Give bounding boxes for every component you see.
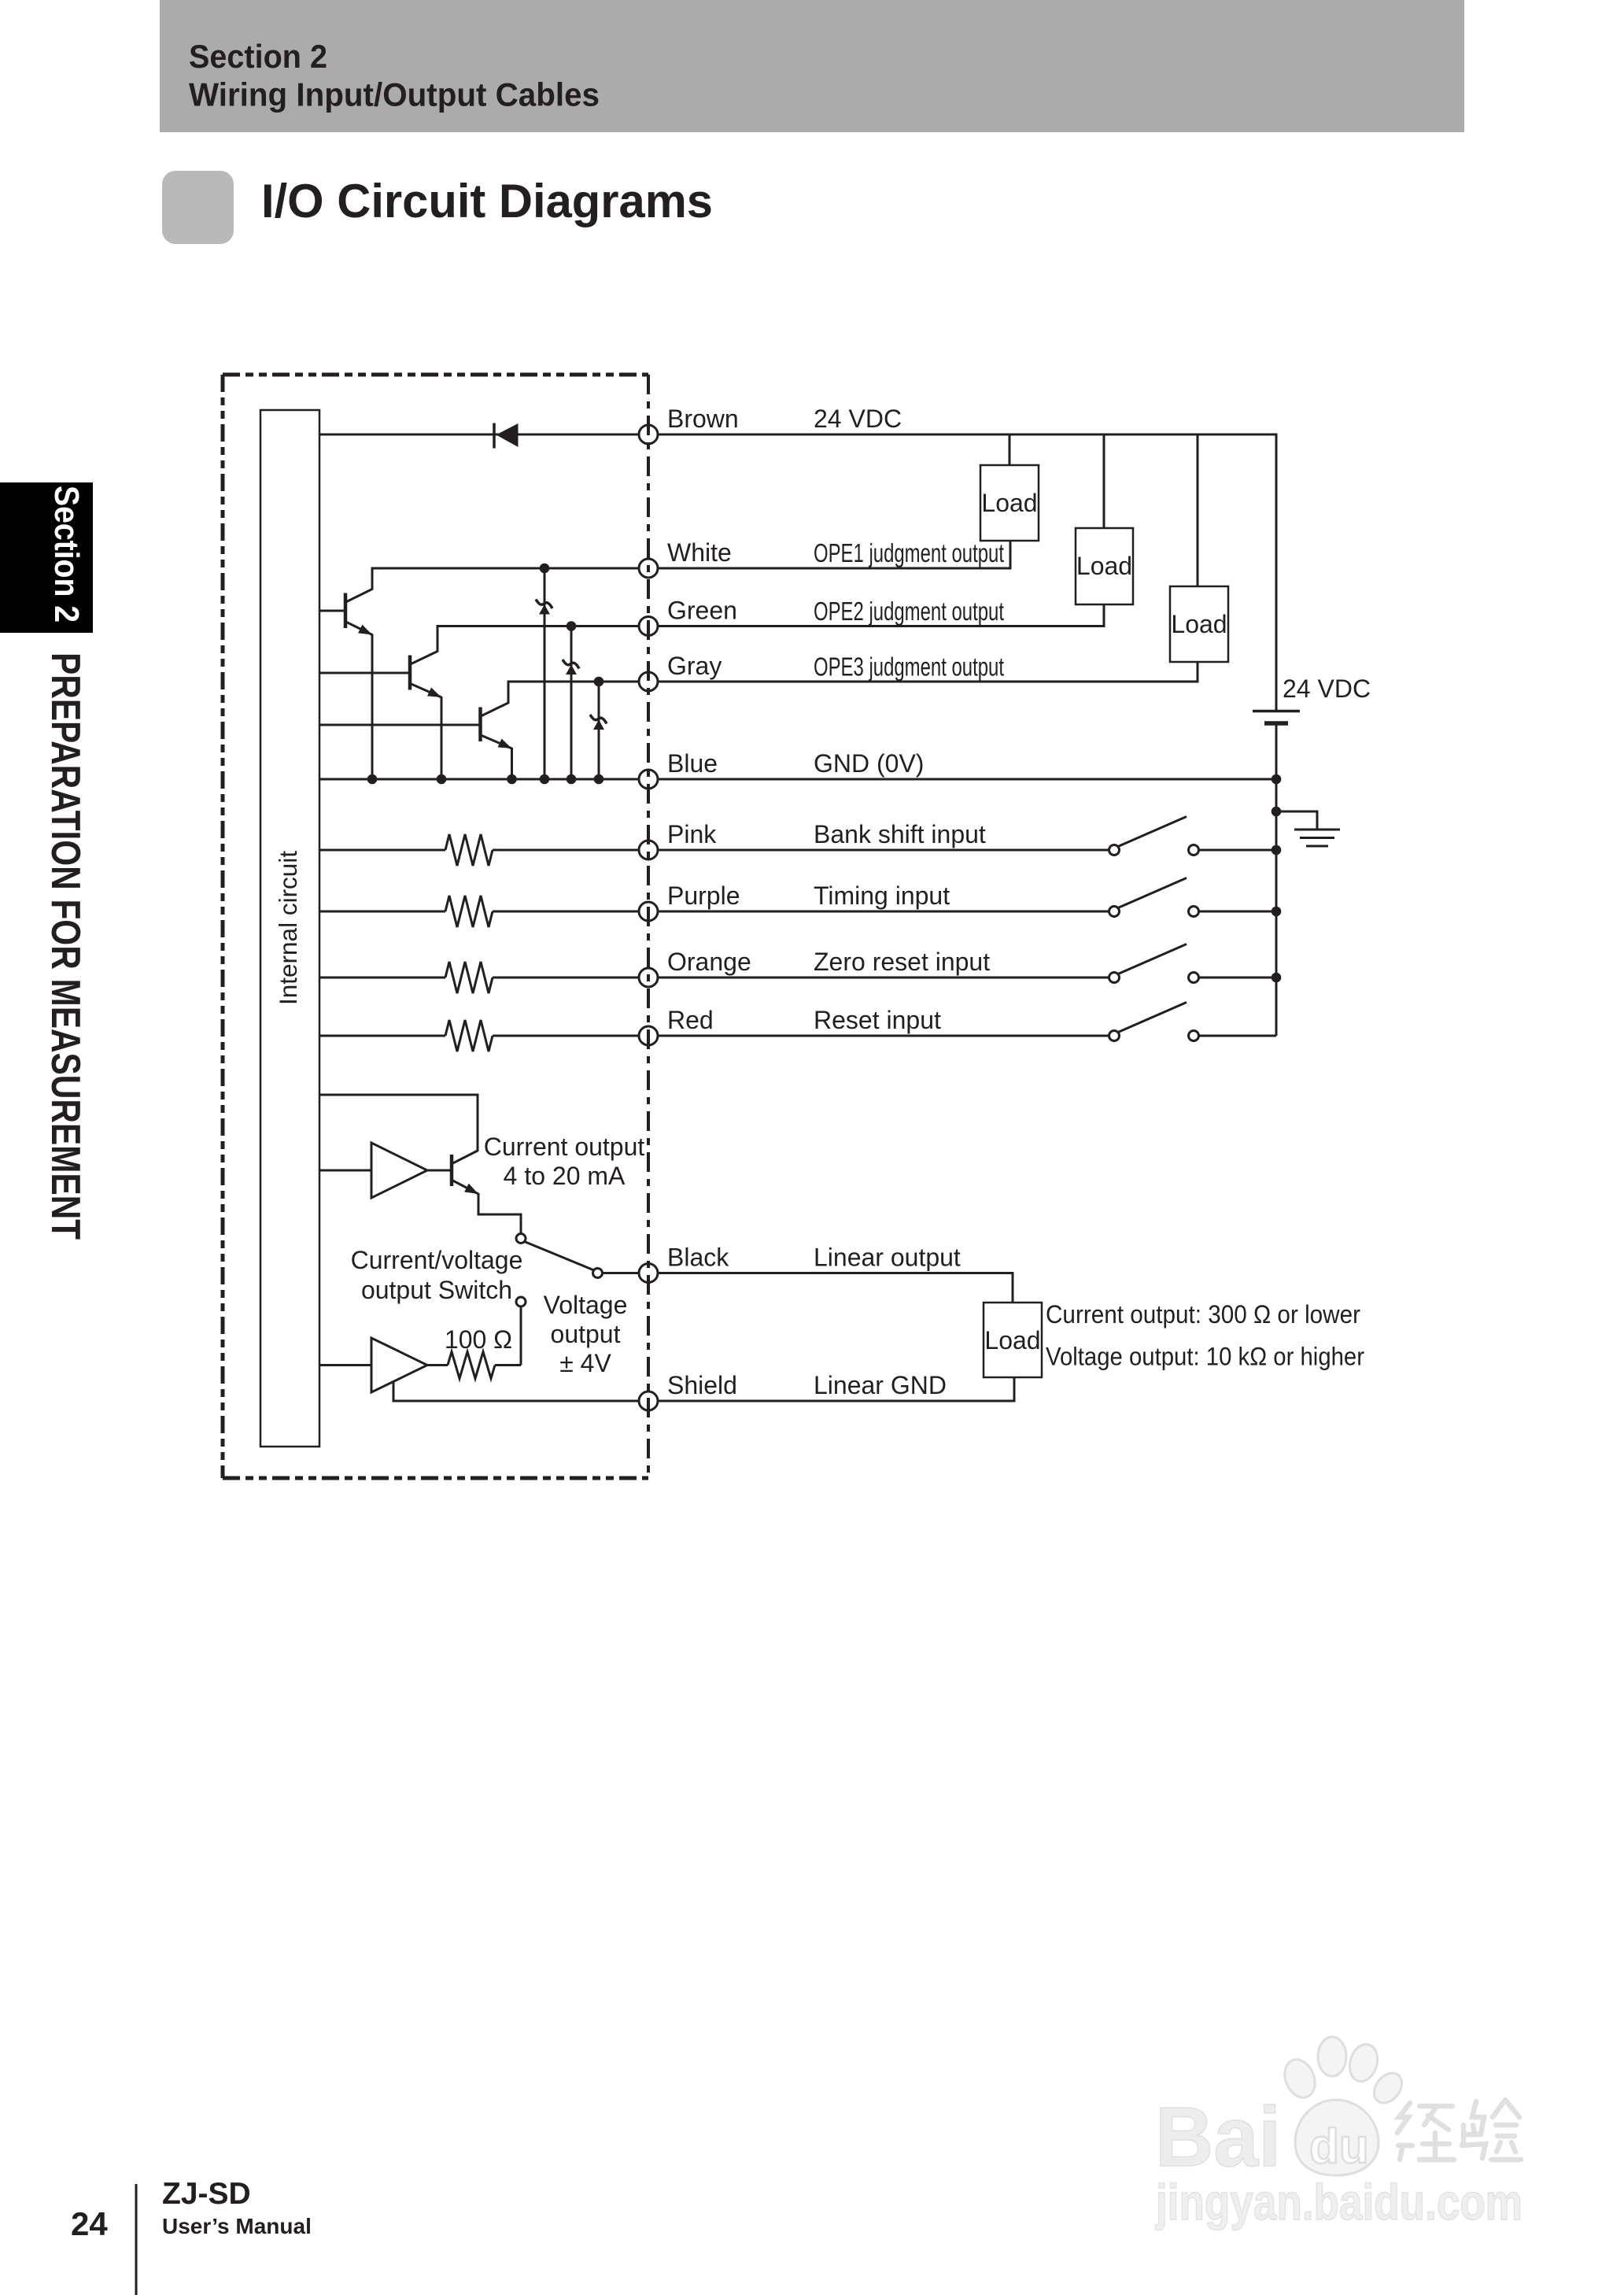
svg-text:± 4V: ± 4V [559, 1349, 611, 1377]
wire ground bus vertical [1275, 779, 1278, 1036]
svg-text:Current/voltage: Current/voltage [351, 1246, 523, 1274]
svg-text:OPE3 judgment output: OPE3 judgment output [814, 652, 1004, 682]
svg-text:Brown: Brown [667, 405, 739, 433]
svg-text:Load: Load [981, 489, 1037, 517]
wire load L2 feed [1103, 434, 1105, 528]
terminal Purple [639, 902, 658, 921]
red input: wire internal [319, 1035, 445, 1037]
junction Q2 emitter - bus [437, 774, 447, 785]
svg-text:24 VDC: 24 VDC [1283, 674, 1371, 703]
svg-text:24 VDC: 24 VDC [814, 405, 902, 433]
svg-text:White: White [667, 538, 732, 567]
svg-text:Wiring Input/Output Cables: Wiring Input/Output Cables [189, 76, 600, 113]
orange input: wire internal [319, 977, 445, 979]
wire white OPE1 external to load L1 [658, 541, 1010, 568]
svg-text:Pink: Pink [667, 820, 717, 848]
svg-text:24: 24 [71, 2205, 108, 2242]
wire green OPE2 external to load L2 [658, 604, 1104, 626]
load L1 [980, 465, 1039, 541]
transistor Q1 [319, 589, 372, 635]
wire to earth ground [1276, 811, 1317, 830]
svg-text:100 Ω: 100 Ω [445, 1325, 512, 1354]
svg-text:Load: Load [1171, 610, 1227, 638]
transistor Q3 [319, 703, 512, 748]
wire load L1 feed [1009, 434, 1011, 465]
transistor Q2 emitter arrow [427, 687, 443, 701]
resistor R5 100 ohm [448, 1352, 495, 1379]
svg-text:Reset input: Reset input [814, 1006, 941, 1034]
svg-text:Shield: Shield [667, 1371, 737, 1399]
wire S2 to bus [1199, 911, 1277, 913]
svg-text:PREPARATION FOR MEASUREMENT: PREPARATION FOR MEASUREMENT [42, 652, 88, 1240]
switch S1 bank shift [1109, 817, 1199, 856]
purple input: wire internal [319, 911, 445, 913]
wire Q4 emitter to switch common [478, 1193, 521, 1233]
junction Q1 emitter - bus [367, 774, 378, 785]
wire Q3 emitter to GND bus [511, 748, 513, 779]
svg-text:jingyan.baidu.com: jingyan.baidu.com [1155, 2174, 1522, 2230]
svg-text:output: output [551, 1320, 621, 1348]
resistor R4 [445, 1020, 493, 1051]
title square [162, 171, 234, 244]
wire linear GND external to load L4 [658, 1377, 1014, 1401]
battery B1 24 VDC [1253, 711, 1300, 724]
junction S1 - bus [1272, 845, 1282, 856]
terminal Shield [639, 1391, 658, 1410]
svg-text:Red: Red [667, 1006, 714, 1034]
wire gray OPE3 internal [507, 681, 640, 683]
wire red external [658, 1035, 1109, 1037]
svg-text:Bank shift input: Bank shift input [814, 820, 986, 848]
svg-text:Zero reset input: Zero reset input [814, 948, 990, 976]
svg-text:Section 2: Section 2 [189, 38, 327, 75]
terminal Blue [639, 770, 658, 789]
terminal Green [639, 617, 658, 636]
earth ground symbol [1294, 830, 1340, 846]
junction Z1 - bus [540, 774, 550, 785]
wire GND blue bus internal [319, 778, 639, 781]
svg-text:I/O Circuit Diagrams: I/O Circuit Diagrams [261, 175, 713, 227]
switch S4 reset [1109, 1003, 1199, 1041]
svg-text:GND (0V): GND (0V) [814, 749, 924, 778]
wire U2 to shield [393, 1381, 639, 1401]
junction Z3 - bus [594, 774, 604, 785]
wire brown external to loads and battery [658, 434, 1276, 710]
load L4 [984, 1303, 1042, 1377]
transistor Q3 emitter arrow [498, 738, 514, 752]
svg-text:Voltage: Voltage [544, 1291, 628, 1319]
resistor R1 [445, 834, 493, 866]
wire U2 output to resistor [427, 1364, 448, 1366]
svg-text:OPE2 judgment output: OPE2 judgment output [814, 597, 1004, 626]
svg-text:Timing input: Timing input [814, 881, 950, 910]
pink input: wire internal [319, 849, 445, 852]
terminal Brown [639, 425, 658, 444]
wire S4 to bus corner [1199, 1035, 1277, 1037]
wire Q1 emitter to GND bus [371, 634, 374, 780]
terminal Gray [639, 672, 658, 691]
svg-text:Orange: Orange [667, 948, 751, 976]
zener diode Z1 [536, 568, 552, 779]
wire S1 to bus [1199, 849, 1277, 852]
wire S3 to bus [1199, 977, 1277, 979]
internal circuit boundary dash-dot box [223, 375, 648, 1478]
wire Q3 collector riser [507, 682, 510, 704]
wire orange to terminal [493, 977, 639, 979]
junction S3 - bus [1272, 973, 1282, 983]
wire brown 24VDC from internal circuit [319, 434, 639, 436]
svg-text:Purple: Purple [667, 881, 740, 910]
svg-text:Current output: Current output [484, 1133, 645, 1161]
wire load L3 feed [1197, 434, 1199, 586]
wire voltage contact to resistor node [520, 1306, 522, 1366]
junction gray wire - Z3 [594, 677, 604, 687]
wire purple external [658, 911, 1109, 913]
wire pink external [658, 849, 1109, 852]
header gray bar [160, 0, 1464, 132]
wire S5 to Black terminal [603, 1272, 639, 1274]
wire orange external [658, 977, 1109, 979]
resistor R2 [445, 896, 493, 927]
junction Z2 - bus [567, 774, 577, 785]
svg-text:Linear GND: Linear GND [814, 1371, 947, 1399]
switch S2 timing [1109, 878, 1199, 917]
svg-text:Load: Load [984, 1326, 1040, 1354]
transistor Q4 emitter arrow [464, 1184, 481, 1199]
wire U1 output to Q4 base [427, 1170, 450, 1172]
svg-text:Green: Green [667, 597, 737, 625]
wire blue GND external [658, 778, 1276, 781]
wire Q4 collector feed [319, 1095, 478, 1151]
sidebar tab [0, 482, 93, 633]
svg-text:Internal circuit: Internal circuit [274, 851, 302, 1005]
wire pink to terminal [493, 849, 639, 852]
load L2 [1076, 528, 1133, 604]
junction green wire - Z2 [567, 621, 577, 631]
switch S5 voltage contact [516, 1297, 526, 1306]
switch S5 current/voltage select [516, 1234, 603, 1278]
terminal Orange [639, 968, 658, 987]
junction white wire - Z1 [540, 564, 550, 574]
svg-text:OPE1 judgment output: OPE1 judgment output [814, 538, 1004, 567]
svg-text:output Switch: output Switch [361, 1276, 512, 1304]
junction GND - bus [1272, 774, 1282, 785]
wire linear output external to load L4 [658, 1273, 1013, 1303]
connector boundary dashed line [647, 375, 650, 1478]
internal circuit block [260, 410, 319, 1447]
wire resistor to voltage contact [495, 1364, 521, 1366]
svg-text:4 to 20 mA: 4 to 20 mA [504, 1162, 626, 1190]
transistor Q2 [319, 652, 441, 698]
zener diode Z2 [563, 626, 579, 780]
wire Q1 collector riser [371, 568, 374, 590]
wire white OPE1 internal [371, 567, 640, 570]
svg-text:du: du [1309, 2119, 1369, 2174]
watermark baidu jingyan [1155, 2037, 1522, 2230]
svg-text:ZJ-SD: ZJ-SD [162, 2177, 251, 2211]
wire red to terminal [493, 1035, 639, 1037]
transistor Q4 [452, 1151, 478, 1194]
wire battery negative to GND bus [1275, 726, 1278, 780]
svg-text:Blue: Blue [667, 749, 718, 778]
svg-text:Voltage output: 10 kΩ or highe: Voltage output: 10 kΩ or higher [1046, 1343, 1364, 1371]
svg-text:Black: Black [667, 1244, 729, 1272]
svg-text:Gray: Gray [667, 652, 722, 680]
svg-text:Linear output: Linear output [814, 1244, 961, 1272]
load L3 [1170, 586, 1228, 662]
wire Q2 emitter to GND bus [441, 697, 443, 779]
svg-text:Load: Load [1076, 552, 1132, 580]
op-amp U2 voltage driver [371, 1338, 427, 1392]
terminal Red [639, 1026, 658, 1045]
terminal Black [639, 1264, 658, 1283]
op-amp U1 current driver [371, 1143, 427, 1198]
svg-text:User’s Manual: User’s Manual [162, 2214, 312, 2238]
svg-text:Current output: 300 Ω or lower: Current output: 300 Ω or lower [1046, 1300, 1360, 1329]
svg-text:Bai: Bai [1155, 2089, 1281, 2184]
svg-text:Section 2: Section 2 [47, 486, 86, 623]
wire Q2 collector riser [437, 626, 439, 652]
switch S3 zero reset [1109, 944, 1199, 983]
wire U1 input [319, 1170, 371, 1172]
diode D1 reverse protection [494, 423, 519, 449]
wire green OPE2 internal [437, 625, 640, 627]
terminal Pink [639, 841, 658, 859]
junction earth branch [1272, 807, 1282, 817]
terminal White [639, 559, 658, 578]
wire purple to terminal [493, 911, 639, 913]
zener diode Z3 [590, 682, 607, 779]
junction S2 - bus [1272, 907, 1282, 917]
wire U2 input [319, 1364, 371, 1366]
wire gray OPE3 external to load L3 [658, 662, 1198, 682]
resistor R3 [445, 962, 493, 993]
transistor Q1 emitter arrow [358, 625, 375, 639]
junction Q3 emitter - bus [507, 774, 517, 785]
